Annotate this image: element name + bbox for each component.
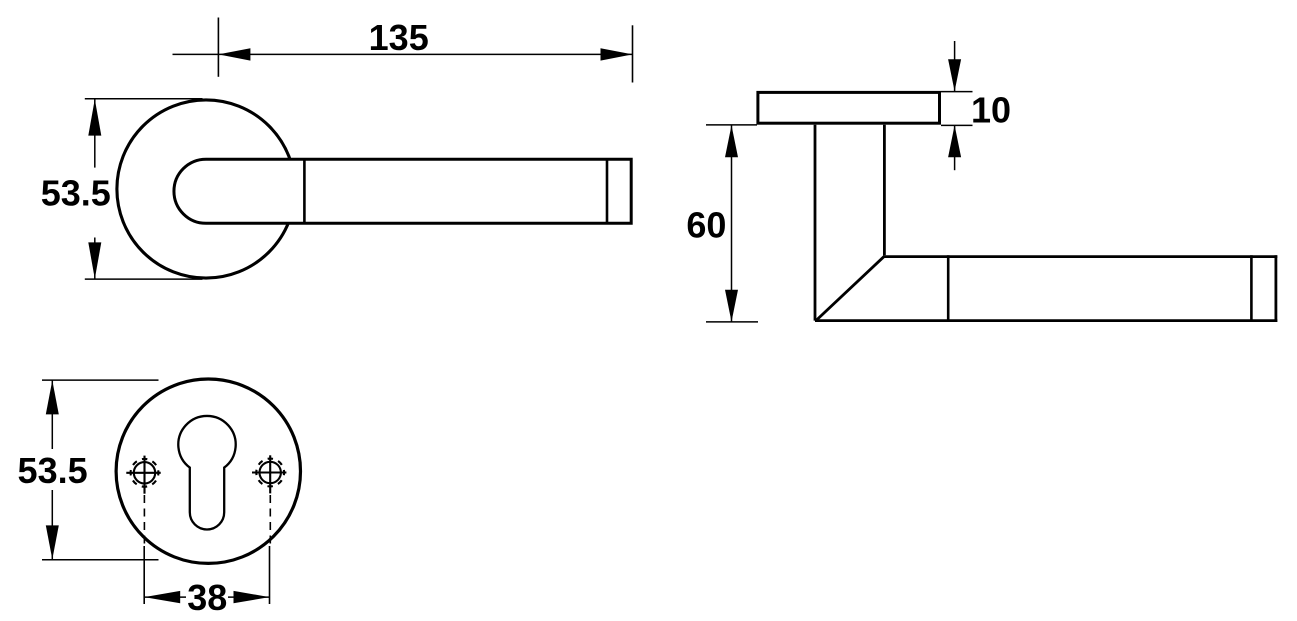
- lever bar right end edge (side view): [1275, 255, 1278, 322]
- dimension 135: left arrowhead: [218, 48, 250, 60]
- dimension 38: dimension line right segment: [228, 596, 270, 598]
- lever bar top edge (side view): [884, 255, 1277, 258]
- dimension 53.5 (bottom): dimension line lower segment: [51, 490, 53, 559]
- dimension 53.5 (bottom): top extension line: [42, 379, 159, 381]
- miter diagonal line (side view): [816, 256, 885, 321]
- dimension 38: dimension line left segment: [144, 596, 186, 598]
- right screw dashed drop line: [269, 495, 271, 546]
- dimension 10: top extension line: [941, 91, 973, 93]
- dimension 53.5 (front): bottom arrowhead: [88, 242, 101, 279]
- dimension 60: dimension line: [731, 125, 733, 321]
- dimension 53.5 (front): dimension line upper segment: [94, 99, 96, 168]
- left screw hole horizontal centerline: [126, 472, 160, 474]
- svg-text:10: 10: [971, 89, 1011, 130]
- svg-text:53.5: 53.5: [18, 450, 88, 491]
- svg-text:135: 135: [369, 17, 429, 58]
- dimension 60: bottom arrowhead: [725, 290, 738, 322]
- left screw hole vertical centerline: [143, 456, 145, 494]
- dimension 53.5 (front): bottom extension line: [85, 278, 203, 280]
- dimension 38: right arrowhead: [234, 591, 270, 603]
- rose circle (front view): [117, 100, 295, 278]
- dimension 135: right arrowhead: [601, 48, 633, 60]
- dimension 53.5 (front): top arrowhead: [88, 99, 101, 136]
- svg-text:38: 38: [187, 577, 227, 618]
- dimension 53.5 (front): dimension line lower segment: [94, 238, 96, 279]
- lever neck joint line (front view): [303, 159, 306, 223]
- dimension 53.5 (front): top extension line: [85, 98, 203, 100]
- dimension 60: bottom extension line: [706, 321, 758, 323]
- dimension 38: left arrowhead: [144, 591, 180, 603]
- escutcheon circle: [116, 379, 300, 563]
- rose plate rectangle (side view): [758, 92, 940, 123]
- dimension 60: top arrowhead: [725, 125, 738, 157]
- neck left edge (side view): [814, 125, 817, 321]
- dimension 10: lower leader line: [954, 125, 956, 170]
- dimension 60: top extension line: [706, 124, 757, 126]
- dimension 53.5 (bottom): bottom arrowhead: [46, 525, 59, 559]
- lever end cap line (front view): [606, 159, 609, 223]
- dimension 135: dimension line: [173, 53, 633, 55]
- right screw hole horizontal centerline: [252, 471, 286, 473]
- svg-text:53.5: 53.5: [41, 173, 111, 214]
- left screw dashed drop line: [143, 495, 145, 546]
- dimension 10: bottom extension line: [941, 124, 973, 126]
- dimension 53.5 (bottom): bottom extension line: [42, 559, 159, 561]
- right screw hole vertical centerline: [269, 455, 271, 493]
- neck right edge (side view): [883, 125, 886, 256]
- dimension 38: right extension tick: [269, 546, 271, 604]
- lever end cap line (side view): [1250, 255, 1253, 322]
- dimension 53.5 (bottom): top arrowhead: [46, 380, 59, 414]
- dimension 135: right extension tick: [632, 25, 634, 82]
- dimension 10: upper leader line: [954, 41, 956, 91]
- left screw hole dashed circle: [131, 459, 159, 487]
- lever handle outline (front view, white fill over rose): [174, 159, 631, 223]
- dimension 10: upper arrowhead pointing down: [948, 59, 961, 91]
- dimension 135: left extension tick: [217, 18, 219, 77]
- right screw hole dashed circle: [256, 459, 284, 487]
- right screw hole solid circle: [260, 462, 281, 483]
- dimension 38: left extension tick: [143, 546, 145, 604]
- dimension 53.5 (bottom): dimension line upper segment: [51, 380, 53, 449]
- svg-text:60: 60: [686, 205, 726, 246]
- lever bar bottom edge (side view): [815, 319, 1277, 322]
- lever joint line (side view): [947, 255, 950, 322]
- left screw hole solid circle: [134, 462, 155, 483]
- euro profile cylinder keyhole: [178, 416, 235, 530]
- dimension 10: lower arrowhead pointing up: [948, 125, 961, 157]
